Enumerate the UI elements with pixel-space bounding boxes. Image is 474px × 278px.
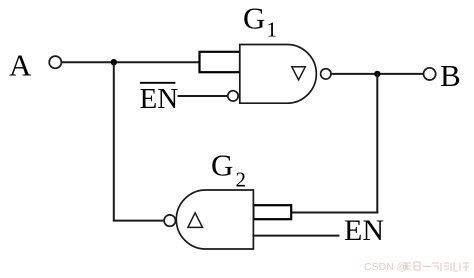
label EN-bar overline bbox=[140, 82, 176, 84]
svg-text:1: 1 bbox=[267, 18, 278, 42]
svg-text:EN: EN bbox=[140, 83, 179, 115]
gate G2 output bubble bbox=[164, 215, 175, 226]
svg-text:CSDN @: CSDN @ bbox=[364, 261, 407, 273]
gate G1 tri-state triangle symbol bbox=[292, 67, 306, 80]
gate G1 output bubble bbox=[321, 69, 331, 79]
wire right branch to G2 input box bbox=[291, 212, 378, 214]
wire left branch to G2 output bubble bbox=[113, 220, 164, 222]
svg-text:A: A bbox=[9, 48, 32, 83]
junction dot at node A branch bbox=[111, 59, 117, 65]
junction dot at node B branch bbox=[374, 71, 380, 77]
node A terminal circle bbox=[49, 56, 61, 68]
G1 input box (data input rectangle) bbox=[200, 52, 241, 72]
watermark CSDN bbox=[364, 261, 469, 273]
svg-text:B: B bbox=[440, 58, 461, 93]
wire G1 output to B bbox=[331, 73, 423, 75]
wire EN-bar to G1 enable bubble bbox=[178, 95, 228, 97]
wire G2 lower input to EN bbox=[252, 235, 339, 237]
svg-text:G: G bbox=[243, 1, 265, 36]
svg-text:G: G bbox=[211, 147, 233, 182]
node B terminal circle bbox=[424, 68, 436, 80]
gate G1 body bbox=[240, 45, 317, 104]
svg-text:2: 2 bbox=[236, 168, 247, 192]
gate G2 tri-state triangle symbol bbox=[188, 213, 203, 228]
G1 enable input bubble bbox=[228, 91, 238, 101]
svg-text:EN: EN bbox=[344, 214, 384, 247]
gate G2 body bbox=[176, 190, 253, 249]
wire vertical right branch down bbox=[376, 74, 378, 213]
wire vertical left branch down bbox=[113, 62, 115, 220]
wire from A to G1 input box bbox=[62, 61, 200, 63]
G2 input box (data input rectangle) bbox=[253, 205, 291, 219]
